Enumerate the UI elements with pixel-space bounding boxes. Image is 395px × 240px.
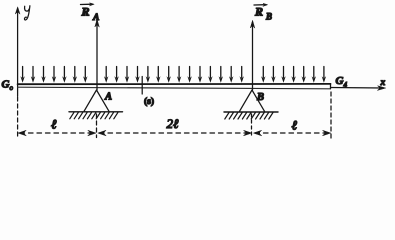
svg-text:A: A: [104, 92, 112, 103]
beam bottom line: [18, 87, 331, 89]
y-axis: [15, 7, 20, 96]
label RB with vector bar: [254, 3, 272, 21]
svg-text:B: B: [256, 92, 264, 103]
support A ground line: [69, 111, 123, 113]
svg-text:(s): (s): [144, 96, 154, 107]
beam right edge: [330, 84, 332, 89]
dimension line segment l (right): [254, 130, 331, 135]
support B hatching: [225, 113, 273, 120]
svg-text:R: R: [81, 5, 90, 19]
support B ground line: [224, 111, 278, 113]
beam top line: [18, 83, 331, 85]
support A triangle: [84, 90, 109, 111]
svg-text:2ℓ: 2ℓ: [167, 116, 180, 131]
dimension line segment l (left): [18, 130, 96, 135]
support A hatching: [70, 112, 118, 119]
reaction force arrow RA: [95, 20, 99, 91]
distributed load arrows: [20, 67, 326, 83]
label RA with vector bar: [81, 3, 100, 23]
svg-text:x: x: [380, 78, 386, 88]
svg-text:ℓ: ℓ: [51, 117, 57, 132]
svg-text:B: B: [265, 12, 272, 22]
support B triangle: [240, 90, 265, 111]
dashed extension line under A: [96, 114, 98, 138]
svg-text:Go: Go: [2, 79, 14, 93]
svg-text:A: A: [92, 13, 99, 23]
dashed extension line under B: [251, 114, 253, 138]
dimension line segment 2l (middle): [98, 130, 252, 135]
svg-text:ℓ: ℓ: [292, 118, 298, 133]
dashed extension line right: [330, 92, 332, 139]
x-axis: [331, 86, 386, 91]
section tick at s: [141, 77, 143, 95]
dashed extension line left: [17, 97, 19, 139]
svg-text:R: R: [254, 5, 263, 19]
y-axis label y: [24, 6, 29, 20]
svg-text:G4: G4: [336, 75, 348, 89]
reaction force arrow RB: [250, 21, 254, 91]
